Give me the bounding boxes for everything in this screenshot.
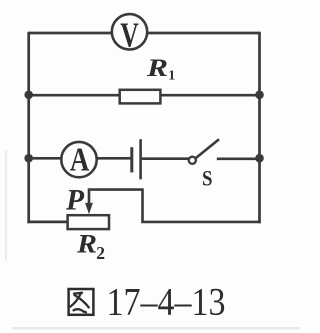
wire R1 branch right — [160, 94, 260, 97]
caption character 图 drawn as strokes — [69, 289, 94, 315]
wire battery to switch — [142, 157, 189, 160]
wire bottom-left horizontal to rheostat — [27, 221, 69, 224]
wire ammeter to battery — [97, 157, 132, 160]
svg-text:2: 2 — [96, 243, 105, 263]
resistor R1 — [120, 90, 161, 104]
node right of battery branch — [255, 154, 264, 163]
wire right vertical — [258, 32, 261, 224]
battery negative plate (short) — [130, 147, 133, 172]
svg-text:1: 1 — [168, 69, 175, 84]
wire top-left horizontal — [29, 32, 111, 35]
svg-text:S: S — [202, 166, 213, 191]
switch S pivot — [189, 157, 196, 164]
node top-left of R1 branch — [24, 91, 33, 100]
ammeter A — [61, 142, 96, 179]
svg-text:V: V — [120, 16, 139, 55]
battery positive plate (long) — [139, 139, 142, 179]
node left of battery branch — [24, 154, 33, 163]
wire battery branch left — [29, 157, 62, 160]
node top-right of R1 branch — [255, 91, 264, 100]
svg-text:P: P — [65, 184, 85, 216]
faint scan streak bottom — [12, 327, 300, 330]
rheostat R2 — [68, 215, 109, 229]
slider arrow of rheostat — [85, 203, 93, 214]
voltmeter V — [112, 14, 147, 55]
svg-text:R: R — [76, 230, 97, 259]
svg-text:17–4–13: 17–4–13 — [107, 281, 226, 324]
faint scan streak left — [5, 150, 7, 260]
wire top-right horizontal — [148, 32, 260, 35]
wire R1 branch left — [29, 94, 121, 97]
wire slider to bottom-right — [89, 190, 261, 222]
svg-text:A: A — [70, 142, 90, 179]
wire left vertical — [27, 32, 30, 224]
wire switch to right — [217, 158, 261, 161]
switch S lever — [196, 139, 219, 158]
svg-text:R: R — [146, 55, 168, 82]
